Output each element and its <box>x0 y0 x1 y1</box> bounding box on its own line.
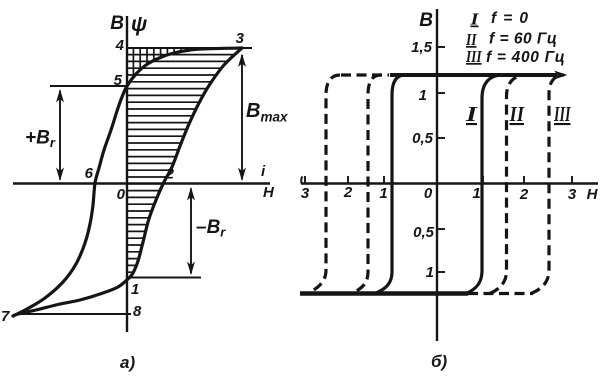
svg-text:III: III <box>465 47 482 66</box>
svg-text:ψ: ψ <box>131 13 147 36</box>
svg-text:B: B <box>110 13 124 34</box>
svg-text:f = 400 Гц: f = 400 Гц <box>486 49 566 66</box>
svg-text:I: I <box>465 102 478 126</box>
svg-text:1: 1 <box>419 87 427 104</box>
svg-text:4: 4 <box>115 37 125 54</box>
svg-text:2: 2 <box>519 186 529 203</box>
svg-text:6: 6 <box>85 165 94 182</box>
svg-text:1: 1 <box>379 185 387 202</box>
svg-text:0,5: 0,5 <box>413 224 435 241</box>
svg-text:H: H <box>587 186 599 203</box>
svg-text:3: 3 <box>301 185 310 202</box>
svg-text:1: 1 <box>131 281 139 298</box>
svg-text:1: 1 <box>472 185 480 202</box>
svg-text:2: 2 <box>165 166 175 183</box>
svg-text:B: B <box>419 10 433 31</box>
svg-text:5: 5 <box>114 72 123 89</box>
svg-text:f = 60 Гц: f = 60 Гц <box>489 31 557 48</box>
svg-text:а): а) <box>120 353 135 372</box>
svg-text:2: 2 <box>343 184 353 201</box>
svg-text:f = 0: f = 0 <box>491 10 529 27</box>
svg-text:б): б) <box>431 352 448 371</box>
svg-text:II: II <box>509 102 525 126</box>
svg-text:1,5: 1,5 <box>411 39 433 56</box>
svg-text:0: 0 <box>117 186 126 203</box>
svg-text:1: 1 <box>426 264 434 281</box>
svg-text:III: III <box>553 102 571 126</box>
svg-text:3: 3 <box>568 186 577 203</box>
svg-text:0: 0 <box>424 185 433 202</box>
svg-text:H: H <box>263 184 275 201</box>
svg-text:8: 8 <box>133 303 142 320</box>
svg-text:7: 7 <box>1 308 10 325</box>
svg-text:3: 3 <box>236 30 245 47</box>
svg-text:0,5: 0,5 <box>412 130 434 147</box>
